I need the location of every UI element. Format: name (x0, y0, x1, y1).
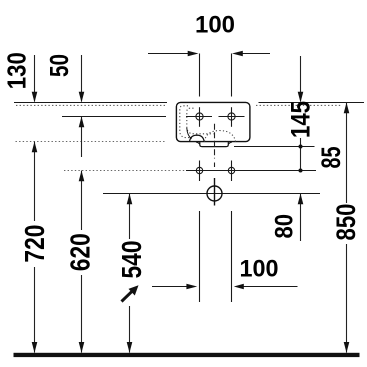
floor line (14, 353, 360, 357)
rim level solid line (14, 102, 167, 104)
tap centerline extension B top (231, 54, 233, 97)
basin bottom extension dotted line (720 level) (16, 141, 167, 143)
tap hole cross left (186, 107, 212, 127)
fixing hole level line through holes to chain dot (186, 170, 316, 172)
svg-text:100: 100 (195, 12, 235, 39)
label 620 (65, 233, 96, 271)
arrow 620 down at floor (79, 342, 85, 353)
arrow 850 down at floor (344, 342, 350, 353)
chain dot upper (145/85) (299, 145, 303, 149)
centerline vertical dashed lower (214, 163, 216, 168)
dimension line 540 (129, 194, 131, 240)
svg-text:540: 540 (116, 241, 147, 279)
tab bottom extension line (145 level) (234, 146, 315, 148)
arrow top100 right (188, 51, 199, 57)
label 145 (285, 101, 315, 138)
top 100 dimension right tail (242, 53, 270, 55)
arrow 540 up (127, 194, 133, 205)
label 50 (46, 54, 74, 77)
label 540 (116, 241, 147, 279)
tab left chamfer (196, 142, 200, 144)
label 720 (19, 225, 50, 263)
bottom 100 dimension left tail (152, 286, 187, 288)
svg-text:85: 85 (316, 147, 346, 169)
label 130 (4, 52, 32, 89)
basin body (176, 102, 250, 141)
label 850 (331, 204, 361, 241)
arrow 145 down at rim (298, 92, 304, 103)
arrow 620 up (79, 171, 85, 182)
bowl-to-dome solid transition (187, 128, 192, 139)
dimension line 50 upper arrow tail (down at rim) (81, 55, 83, 102)
svg-text:720: 720 (19, 225, 50, 263)
svg-text:620: 620 (65, 233, 96, 271)
bottom extension line B (231, 211, 233, 302)
svg-text:130: 130 (4, 52, 32, 89)
dimension line 850 (346, 103, 348, 204)
arrow 50 down at rim (79, 92, 85, 103)
bottom 100 dimension right tail (243, 286, 298, 288)
svg-text:850: 850 (331, 204, 361, 241)
arrowheads (32, 51, 350, 353)
tap centerline extension A top (199, 54, 201, 97)
dimension line 130 arrow tail (34, 55, 36, 102)
rim level dotted centerline left (16, 104, 167, 106)
dimension line 620 (81, 171, 83, 231)
bottom extension line A (199, 211, 201, 302)
fixing hole cross left (196, 161, 202, 182)
arrow 720 up (32, 142, 38, 153)
drain level line (540 level) (103, 193, 320, 195)
label 80 (270, 214, 298, 239)
arrow bottom100 right (186, 284, 197, 290)
bowl inner dotted contour (187, 108, 214, 134)
svg-text:80: 80 (270, 214, 298, 239)
siphon dome solid curve (190, 135, 205, 142)
chain dot lower (85/80) (299, 169, 303, 173)
fixing hole cross right (228, 161, 234, 182)
fixing hole level dotted line (620 level) left part (64, 170, 186, 172)
svg-text:50: 50 (46, 54, 74, 77)
drain circle cross (207, 178, 222, 206)
top 100 dimension left tail (148, 53, 188, 55)
dimension line 50 arrow tail (81, 117, 83, 157)
dimension line 80 arrow tail (300, 194, 302, 242)
arrow 130 down at rim (32, 92, 38, 103)
arrow bottom100 left (234, 284, 244, 290)
centerline vertical dashed upper (214, 124, 216, 159)
bowl outer dotted contour (180, 106, 192, 138)
arrow 850 up at rim (344, 103, 350, 114)
rim level dotted centerline right (256, 104, 341, 106)
svg-text:145: 145 (285, 101, 315, 138)
dimension line 145 arrow tail above rim (300, 56, 302, 102)
tap hole cross right (219, 107, 245, 127)
tab (trap cover) below basin (200, 142, 229, 147)
chain line 145 below text to dots (300, 138, 302, 171)
label 85 (316, 147, 346, 169)
svg-text:100: 100 (240, 256, 279, 283)
arrow 540 down at floor (127, 342, 133, 353)
arrow 80 up at drain level (298, 194, 304, 205)
tap hole level line (62, 116, 166, 118)
waste direction thick arrow (122, 285, 139, 301)
arrow top100 left (232, 51, 243, 57)
arrow 720 down at floor (32, 342, 38, 353)
tab right chamfer (228, 142, 232, 144)
dimension line 720 (34, 142, 36, 222)
arrow 50 up at tap level (79, 117, 85, 128)
hidden trap dotted dome (205, 131, 236, 142)
